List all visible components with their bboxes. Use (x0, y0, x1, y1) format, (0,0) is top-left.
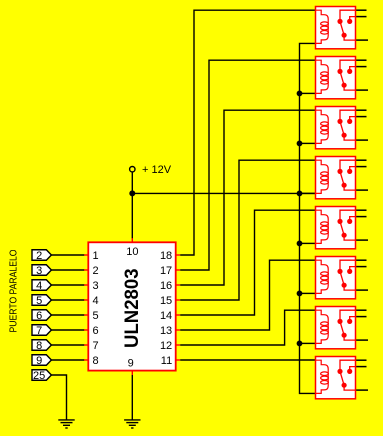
relay K3 NO contact (350, 117, 356, 122)
relay K4 NC contact (340, 160, 356, 171)
relay K2 common pole (344, 85, 355, 90)
relay K7 common pole (344, 335, 355, 340)
svg-text:13: 13 (160, 325, 172, 337)
junction +12V node (129, 190, 135, 196)
wire pin 6 to U1 pin 5 (51, 314, 84, 316)
wire U1 pin 11 to relay K8 coil (180, 359, 315, 361)
U1 pin 13 (176, 329, 181, 331)
relay K3 common pole (344, 135, 355, 140)
relay K2 contact terminals (356, 60, 368, 90)
svg-text:2: 2 (93, 265, 99, 277)
ground (U1 pin 9) (124, 420, 140, 428)
U1 pin 3 (84, 284, 88, 286)
wire U1 pin 9 to ground (131, 375, 133, 420)
svg-text:25: 25 (33, 370, 45, 382)
U1 pin 1 (84, 254, 88, 256)
relay K5 NC contact (340, 210, 356, 221)
relay K2 armature (340, 71, 344, 85)
wire pin 2 to U1 pin 1 (51, 254, 84, 256)
relay K8 coil (316, 360, 329, 393)
U1 pin 8 (84, 359, 88, 361)
U1 pin 10 (131, 238, 133, 243)
relay K1 (316, 7, 369, 49)
U1 pin 2 (84, 269, 88, 271)
svg-text:3: 3 (36, 265, 42, 277)
wire pin 3 to U1 pin 2 (51, 269, 84, 271)
svg-text:5: 5 (93, 310, 99, 322)
svg-text:9: 9 (36, 355, 42, 367)
svg-text:15: 15 (160, 295, 172, 307)
wire rail branch to relay K2 (300, 92, 316, 94)
relay K5 coil (316, 210, 329, 243)
svg-text:9: 9 (128, 358, 134, 370)
relay K1 common pole (344, 35, 355, 40)
wire U1 pin 16 to relay K3 coil (180, 110, 315, 285)
relay K2 (316, 57, 369, 99)
connector pin 4 (DB25) (32, 280, 51, 291)
wire +12V to U1 pin10 (131, 172, 133, 238)
svg-text:18: 18 (160, 250, 172, 262)
relay K2 NO contact (350, 67, 356, 72)
relay K4 NO contact (350, 167, 356, 172)
relay K6 contact terminals (356, 260, 368, 290)
wire pin 7 to U1 pin 6 (51, 329, 84, 331)
svg-text:12: 12 (160, 340, 172, 352)
wire rail branch to relay K7 (300, 342, 316, 344)
connector pin 2 (DB25) (32, 250, 51, 261)
svg-text:10: 10 (126, 246, 138, 258)
relay K7 NO contact (350, 317, 356, 322)
junction rail node K7 (297, 341, 303, 347)
relay K3 armature (340, 121, 344, 135)
junction rail node K2 (297, 91, 303, 97)
svg-text:8: 8 (36, 340, 42, 352)
relay K3 NC contact (340, 110, 356, 121)
connector pin 3 (DB25) (32, 265, 51, 276)
U1 pin 14 (176, 314, 181, 316)
svg-text:3: 3 (93, 280, 99, 292)
wire pin 5 to U1 pin 4 (51, 299, 84, 301)
U1 pin 12 (176, 344, 181, 346)
junction rail node K3 (297, 141, 303, 147)
wire rail branch to relay K6 (300, 292, 316, 294)
relay K2 coil (316, 60, 329, 93)
connector pin 8 (DB25) (32, 340, 51, 351)
svg-text:PUERTO PARALELO: PUERTO PARALELO (8, 249, 19, 332)
relay K8 contact terminals (356, 360, 368, 390)
svg-text:6: 6 (93, 325, 99, 337)
svg-text:7: 7 (36, 325, 42, 337)
relay K1 coil (316, 10, 329, 43)
relay K8 (316, 357, 369, 399)
wire +12V rail (relay coil commons) (300, 43, 316, 393)
relay K1 NO contact (350, 17, 356, 22)
+12V supply terminal (130, 167, 135, 172)
relay K8 NO contact (350, 367, 356, 372)
relay K5 contact terminals (356, 210, 368, 240)
relay K5 NO contact (350, 217, 356, 222)
svg-text:+ 12V: + 12V (142, 164, 172, 176)
relay K3 coil (316, 110, 329, 143)
wire U1 pin 14 to relay K5 coil (180, 210, 315, 315)
relay K8 NC contact (340, 360, 356, 371)
connector pin 5 (DB25) (32, 295, 51, 306)
relay K7 (316, 307, 369, 349)
U1 pin 15 (176, 299, 181, 301)
relay K1 armature (340, 21, 344, 35)
junction rail node K5 (297, 241, 303, 247)
relay K6 coil (316, 260, 329, 293)
svg-text:7: 7 (93, 340, 99, 352)
relay K3 contact terminals (356, 110, 368, 140)
connector pin 25 (DB25 GND) (32, 370, 51, 381)
wire U1 pin 15 to relay K4 coil (180, 160, 315, 300)
relay K7 armature (340, 321, 344, 335)
relay K4 contact terminals (356, 160, 368, 190)
relay K7 coil (316, 310, 329, 343)
U1 pin 6 (84, 329, 88, 331)
relay K5 common pole (344, 235, 355, 240)
relay K7 NC contact (340, 310, 356, 321)
relay K1 contact terminals (356, 10, 368, 40)
relay K6 (316, 257, 369, 299)
wire +12V feed to relay rail (132, 192, 315, 194)
wire U1 pin 18 to relay K1 coil (180, 10, 315, 255)
connector pin 6 (DB25) (32, 310, 51, 321)
svg-text:ULN2803: ULN2803 (122, 268, 143, 348)
wire rail branch to relay K4 (300, 192, 316, 194)
U1 pin 4 (84, 299, 88, 301)
relay K7 contact terminals (356, 310, 368, 340)
wire pin 8 to U1 pin 7 (51, 344, 84, 346)
relay K4 coil (316, 160, 329, 193)
wire U1 pin 13 to relay K6 coil (180, 260, 315, 330)
svg-text:5: 5 (36, 295, 42, 307)
svg-text:1: 1 (93, 250, 99, 262)
relay K5 armature (340, 221, 344, 235)
U1 pin 18 (176, 254, 181, 256)
svg-text:2: 2 (36, 250, 42, 262)
wire rail branch to relay K5 (300, 242, 316, 244)
relay K6 armature (340, 271, 344, 285)
svg-text:14: 14 (160, 310, 172, 322)
U1 pin 11 (176, 359, 181, 361)
U1 pin 5 (84, 314, 88, 316)
U1 pin 16 (176, 284, 181, 286)
U1 pin 17 (176, 269, 181, 271)
wire U1 pin 12 to relay K7 coil (180, 310, 315, 345)
relay K4 armature (340, 171, 344, 185)
connector pin 7 (DB25) (32, 325, 51, 336)
relay K3 (316, 107, 369, 149)
connector pin 9 (DB25) (32, 355, 51, 366)
U1 pin 7 (84, 344, 88, 346)
relay K6 NO contact (350, 267, 356, 272)
relay K1 NC contact (340, 10, 356, 21)
junction rail node K4 (297, 191, 303, 197)
relay K5 (316, 207, 369, 249)
wire U1 pin 17 to relay K2 coil (180, 60, 315, 270)
wire pin 9 to U1 pin 8 (51, 359, 84, 361)
svg-text:16: 16 (160, 280, 172, 292)
U1 pin 9 (131, 371, 133, 375)
wire pin 4 to U1 pin 3 (51, 284, 84, 286)
relay K6 common pole (344, 285, 355, 290)
relay K6 NC contact (340, 260, 356, 271)
svg-text:17: 17 (160, 265, 172, 277)
wire pin 25 to ground (51, 375, 66, 420)
svg-text:8: 8 (93, 355, 99, 367)
ground (pin 25) (58, 420, 74, 428)
op IC U1 ULN2803 body (88, 242, 175, 370)
relay K4 common pole (344, 185, 355, 190)
wire rail branch to relay K3 (300, 142, 316, 144)
svg-text:6: 6 (36, 310, 42, 322)
relay K8 common pole (344, 385, 355, 390)
relay K8 armature (340, 371, 344, 385)
svg-text:11: 11 (161, 355, 172, 367)
relay K4 (316, 157, 369, 199)
svg-text:4: 4 (93, 295, 99, 307)
svg-text:4: 4 (36, 280, 42, 292)
relay K2 NC contact (340, 60, 356, 71)
junction rail node K6 (297, 291, 303, 297)
